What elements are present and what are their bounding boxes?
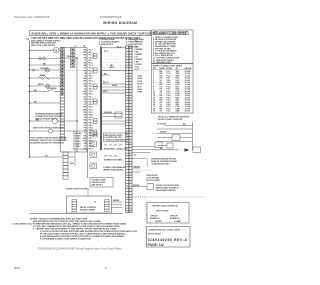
bus pin labels	[89, 50, 94, 151]
component code table	[152, 64, 194, 114]
indicator block 1	[90, 130, 97, 136]
board internal wire	[65, 57, 71, 59]
svg-text:BK/WH: BK/WH	[113, 200, 120, 202]
svg-text:OVEN LT: OVEN LT	[40, 68, 49, 70]
svg-text:TO DOOR: TO DOOR	[157, 124, 167, 126]
svg-text:WIRING DIAGRAM: WIRING DIAGRAM	[103, 21, 137, 25]
svg-text:P1: P1	[75, 46, 77, 48]
main harness connector ladder J1	[126, 46, 132, 213]
svg-text:P5-3: P5-3	[89, 148, 93, 150]
svg-text:M: M	[55, 49, 57, 52]
svg-text:▽P3▽ ▽P4▽: ▽P3▽ ▽P4▽	[147, 233, 161, 236]
svg-text:DOOR CLOSED: DOOR CLOSED	[146, 180, 161, 182]
main harness bus line 2	[100, 48, 102, 151]
svg-text:BK/WH: BK/WH	[160, 132, 167, 134]
top numbered notes column 2	[126, 38, 144, 46]
svg-text:16 BU: 16 BU	[137, 89, 143, 91]
ladder pin labels mid	[137, 76, 143, 94]
ladder wires right	[132, 146, 155, 148]
svg-text:12. GROUND GN/YL: 12. GROUND GN/YL	[153, 62, 172, 64]
svg-text:SEE NOTE 5: SEE NOTE 5	[92, 185, 104, 187]
svg-text:P4-8: P4-8	[89, 137, 93, 140]
svg-text:6803: 6803	[14, 266, 21, 270]
svg-text:P4-2: P4-2	[89, 121, 93, 124]
wire with motor M2	[30, 120, 53, 122]
board side connector P2 pins	[71, 48, 75, 68]
svg-text:UPPER OVEN WIRING: UPPER OVEN WIRING	[103, 169, 124, 171]
door switch	[30, 91, 48, 93]
svg-text:SUPPLY CONNECTIONS TABLE: SUPPLY CONNECTIONS TABLE	[153, 64, 183, 67]
svg-text:IDENTIFIED BY CODES AS FOLLOWS: IDENTIFIED BY CODES AS FOLLOWS	[153, 33, 188, 36]
left pin strip labels	[83, 50, 87, 151]
indicator lights note	[104, 133, 128, 142]
svg-text:P4-7: P4-7	[89, 134, 93, 137]
top numbered notes column 1	[99, 39, 119, 46]
GY wire to connector	[30, 156, 64, 158]
plug symbol pair	[30, 58, 61, 60]
svg-text:Publication No: 5995442716: Publication No: 5995442716	[14, 15, 50, 19]
svg-text:11 BK: 11 BK	[137, 76, 143, 78]
svg-text:17 BR: 17 BR	[137, 92, 143, 94]
door lock note text	[146, 175, 161, 182]
svg-text:SEE NOTE 4 THIS CONNECTION: SEE NOTE 4 THIS CONNECTION	[33, 127, 64, 130]
svg-text:DOOR SW: DOOR SW	[47, 88, 57, 90]
svg-text:BROIL: BROIL	[38, 84, 45, 86]
page cut dotted boundary horizontal	[131, 196, 205, 198]
svg-text:BOARD A1: BOARD A1	[150, 217, 161, 220]
svg-text:ELEMENT ON TIMER: ELEMENT ON TIMER	[104, 160, 123, 162]
svg-text:P4-6: P4-6	[89, 132, 93, 135]
svg-text:PAGE: 1/2: PAGE: 1/2	[148, 243, 164, 247]
relay board K1	[74, 131, 87, 149]
wire BK upper	[30, 64, 61, 66]
svg-text:EW30EW65GS8: EW30EW65GS8	[100, 15, 122, 19]
wire L1 to fan	[30, 49, 54, 51]
note under table	[158, 116, 190, 121]
wire down	[74, 148, 76, 166]
svg-text:CONNECTORS NOT ON ALL UNITS: CONNECTORS NOT ON ALL UNITS	[148, 229, 181, 232]
svg-text:UNLOCKED POSITION: UNLOCKED POSITION	[156, 190, 177, 192]
connector strip wire labels	[135, 46, 143, 71]
svg-text:P2: P2	[83, 46, 85, 48]
lower control board A2	[67, 196, 112, 213]
svg-text:RUNS AT HI SPEED DURING: RUNS AT HI SPEED DURING	[151, 160, 177, 163]
svg-text:BK/WH: BK/WH	[133, 185, 140, 187]
svg-text:( UPPER OVEN CONTROLS ): ( UPPER OVEN CONTROLS )	[152, 206, 179, 208]
svg-text:BAKE BROIL CLEAN LOCK: BAKE BROIL CLEAN LOCK	[104, 147, 128, 150]
svg-text:A-2: A-2	[134, 154, 137, 157]
disconnect note text	[31, 40, 61, 47]
svg-text:5. UPPER AND LOWER OVEN WIRIN: 5. UPPER AND LOWER OVEN WIRING IS IDENTI…	[40, 238, 92, 241]
notes block	[12, 218, 138, 241]
cooling fan motor M1	[54, 47, 60, 53]
svg-text:COM: COM	[75, 146, 80, 148]
convection fan bracket group	[146, 158, 149, 167]
electronic oven control board U1	[101, 48, 126, 71]
dotted wire with arrow	[155, 149, 184, 151]
dotted stub	[134, 169, 152, 171]
harness ribbon wires	[101, 84, 126, 93]
page split dashed line	[60, 70, 150, 72]
wire element	[30, 77, 61, 79]
board connector strip pins	[60, 48, 64, 96]
diagram bottom border	[30, 212, 123, 214]
page cut dotted boundary vertical	[145, 197, 147, 248]
indicator block 2	[90, 141, 97, 147]
svg-text:CLEANING MODES OF OPERATION: CLEANING MODES OF OPERATION	[30, 141, 64, 144]
small box on sensor wire	[155, 142, 162, 148]
svg-text:CLEAN MODE ONLY: CLEAN MODE ONLY	[151, 163, 170, 166]
svg-text:RD-2: RD-2	[67, 56, 71, 58]
oven control board A1 outline	[60, 48, 87, 153]
wire RD	[30, 102, 61, 104]
svg-text:BOARD A2: BOARD A2	[170, 217, 180, 220]
wire with lamp	[30, 85, 61, 87]
indicator block 3	[90, 152, 97, 158]
ladder lower wires	[132, 158, 146, 160]
svg-text:SEE NOTE 1 AND NOTE 2: SEE NOTE 1 AND NOTE 2	[31, 44, 56, 47]
svg-text:FOR USE ON 3 WIRE OR 4 WIRE SI: FOR USE ON 3 WIRE OR 4 WIRE SINGLE PHASE…	[32, 37, 141, 40]
svg-text:CONVECTION FAN MOTOR: CONVECTION FAN MOTOR	[151, 158, 176, 161]
sensor RTD box	[115, 112, 122, 118]
svg-text:12 WH: 12 WH	[137, 78, 143, 80]
svg-text:P4-3: P4-3	[89, 124, 93, 127]
svg-text:CONSOLE ASSEMBLY: CONSOLE ASSEMBLY	[105, 139, 126, 142]
wire with connector box	[132, 186, 147, 188]
svg-text:P7: P7	[94, 202, 96, 204]
svg-text:LOWER: LOWER	[174, 221, 182, 223]
svg-text:UPPER: UPPER	[155, 221, 162, 223]
svg-text:DOOR CLOSED OVEN OFF: DOOR CLOSED OVEN OFF	[158, 119, 183, 121]
lower left wire	[87, 148, 89, 178]
wire fan to board	[59, 49, 61, 51]
rail junction dots	[29, 50, 30, 158]
svg-text:3. SEE NOTE 2: 3. SEE NOTE 2	[99, 44, 114, 46]
info box A circuit boards	[147, 203, 189, 224]
svg-text:3180446260 REV:A: 3180446260 REV:A	[148, 238, 188, 242]
lower note text	[30, 137, 67, 145]
lower oven note box	[90, 178, 113, 188]
info box B title block	[147, 227, 191, 248]
svg-text:EW30EW65GS8 (31804462600001): EW30EW65GS8 (31804462600001) Wiring Diag…	[38, 248, 122, 251]
wire stub y75	[101, 74, 110, 76]
right sub-circuit rail	[192, 122, 194, 150]
wire with lamp L2	[30, 69, 61, 71]
lower oven squares	[90, 163, 97, 169]
svg-text:P4-1: P4-1	[89, 119, 93, 122]
alternate note	[35, 113, 64, 121]
svg-text:▽P1▽ ▽P2▽: ▽P1▽ ▽P2▽	[155, 210, 169, 213]
svg-text:13 RD: 13 RD	[137, 81, 143, 83]
svg-text:BK-12: BK-12	[103, 82, 109, 84]
lamp row 1	[104, 144, 122, 146]
svg-text:ARE SHOWN IN THE OFF POSITION: ARE SHOWN IN THE OFF POSITION WITH THE O…	[33, 220, 102, 223]
inline connector pairs	[94, 54, 98, 138]
connector J3	[63, 152, 68, 179]
lamp row 2	[104, 155, 117, 157]
svg-text:SENSOR: SENSOR	[104, 112, 113, 114]
svg-text:BOARD LOWER: BOARD LOWER	[80, 209, 95, 212]
svg-text:LOWER OVEN CONTROL: LOWER OVEN CONTROL	[65, 188, 90, 190]
main harness bus line 1	[86, 48, 88, 153]
dashed wire stub	[132, 196, 146, 198]
svg-text:-6-: -6-	[104, 266, 107, 270]
warning banner box	[30, 31, 151, 36]
svg-text:K4 NO: K4 NO	[75, 142, 81, 145]
sensor wires	[101, 114, 126, 125]
svg-text:14 OR: 14 OR	[137, 83, 143, 86]
wire with lamp	[30, 130, 49, 132]
wire color code legend box	[152, 30, 194, 64]
svg-text:BAKE: BAKE	[40, 74, 46, 77]
